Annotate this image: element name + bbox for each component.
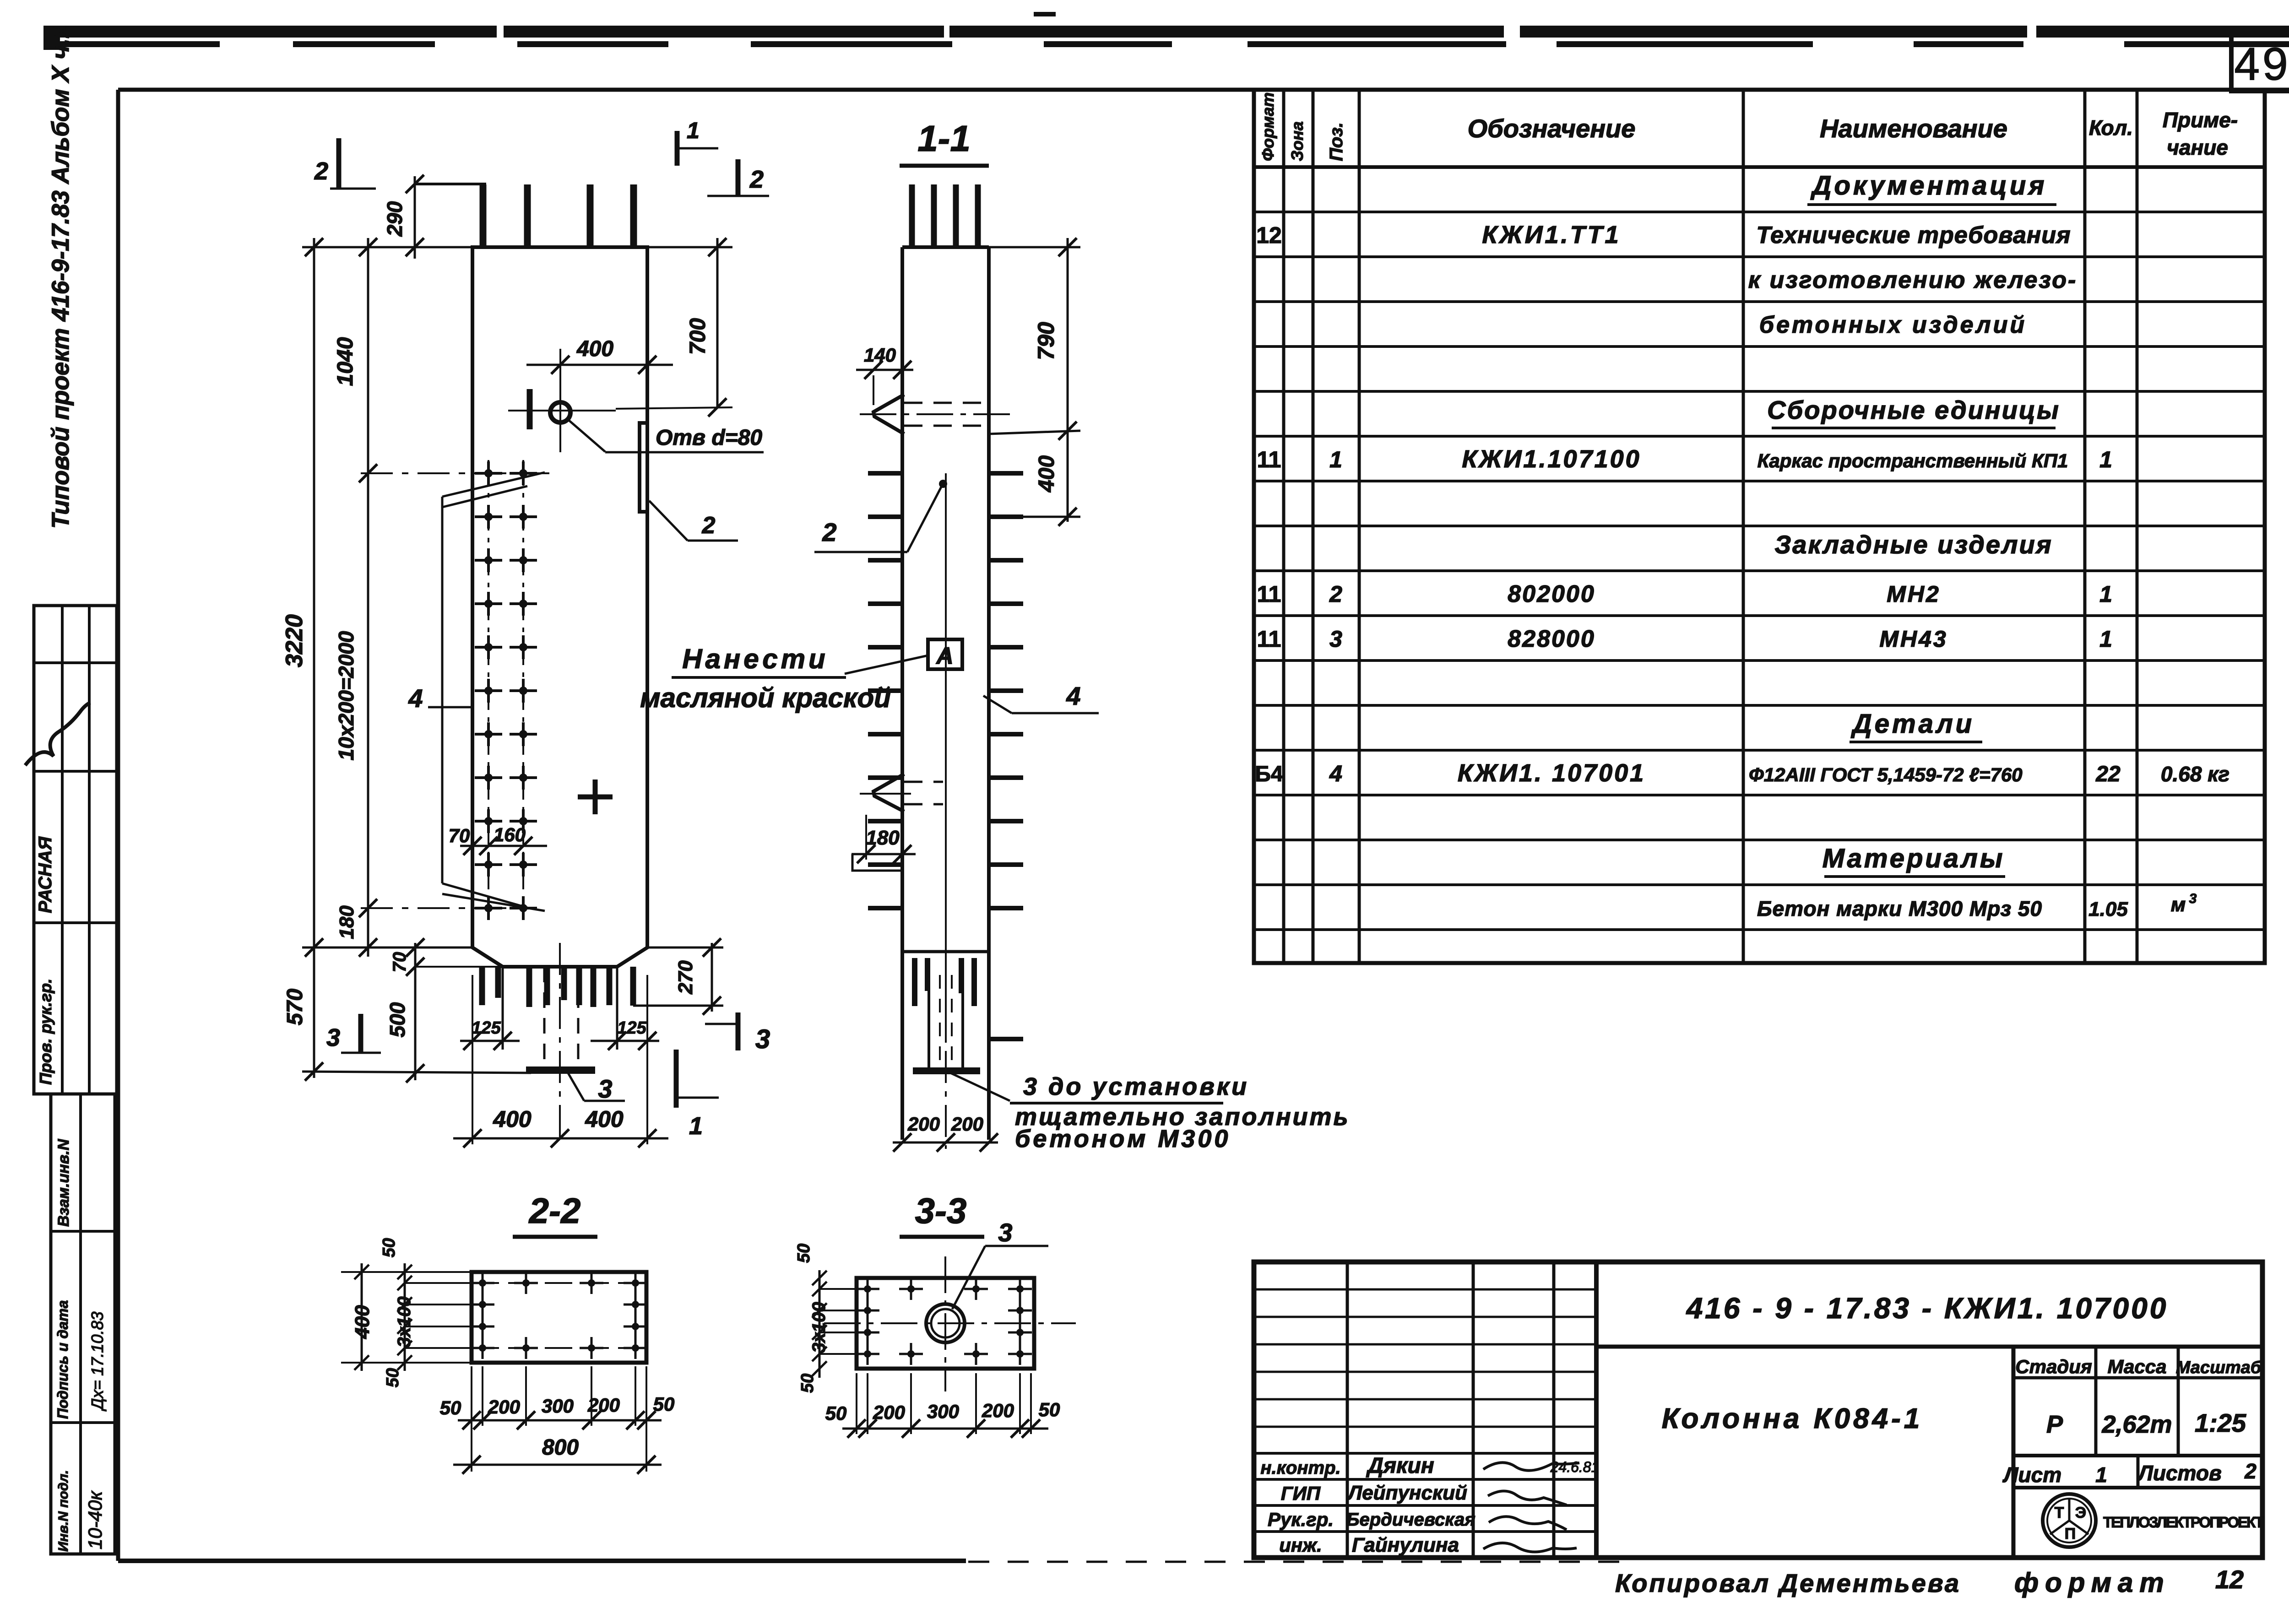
section 2-2 bottom dims	[458, 1419, 662, 1422]
section 1-1 link line right	[945, 473, 947, 1039]
stirrup centerline left	[488, 460, 489, 915]
section 3-3 rebar plus marks	[856, 1288, 879, 1290]
svg-text:11: 11	[1257, 581, 1281, 607]
section 1-1 transverse bar ticks	[868, 471, 904, 476]
level line bottom dash-dot	[361, 907, 531, 909]
svg-text:11: 11	[1257, 626, 1281, 652]
svg-text:160: 160	[494, 824, 526, 845]
front view foot right edge dowel	[630, 967, 636, 1006]
dimension 290	[414, 176, 416, 259]
svg-text:Э: Э	[2075, 1504, 2086, 1521]
svg-text:140: 140	[864, 344, 896, 366]
front view foot narrow shaft	[502, 967, 504, 1050]
section marker 1 top-mid	[675, 131, 680, 166]
svg-text:50: 50	[1039, 1399, 1060, 1420]
svg-text:Колонна К084-1: Колонна К084-1	[1662, 1403, 1923, 1435]
svg-text:3: 3	[1329, 626, 1342, 652]
svg-text:Сборочные единицы: Сборочные единицы	[1767, 395, 2060, 424]
svg-text:А: А	[935, 643, 954, 669]
section 2-2 outline	[472, 1272, 646, 1363]
front view grout channel dashed	[543, 967, 546, 1066]
dimension 125 right	[591, 1040, 659, 1042]
spec table row lines	[1254, 211, 2265, 213]
svg-text:Поз.: Поз.	[1326, 122, 1346, 161]
svg-text:2-2: 2-2	[528, 1191, 581, 1231]
svg-text:ТЕПЛОЗЛЕКТРОПРОЕКТ: ТЕПЛОЗЛЕКТРОПРОЕКТ	[2103, 1514, 2264, 1531]
svg-text:КЖИ1.107100: КЖИ1.107100	[1462, 445, 1641, 473]
svg-text:125: 125	[472, 1018, 501, 1038]
section 1-1 foot centerline	[945, 943, 947, 1149]
svg-text:50: 50	[440, 1397, 461, 1418]
svg-text:50: 50	[653, 1393, 675, 1415]
svg-text:70: 70	[449, 825, 470, 846]
left stamp table upper	[34, 606, 117, 1094]
svg-text:инж.: инж.	[1279, 1534, 1322, 1556]
svg-text:Гайнулина: Гайнулина	[1352, 1534, 1459, 1556]
svg-text:3: 3	[755, 1024, 770, 1054]
svg-text:Лист: Лист	[2002, 1463, 2061, 1487]
section 2-2 left dim line 3x100	[404, 1263, 406, 1371]
svg-text:180: 180	[336, 905, 358, 939]
svg-text:1: 1	[1329, 447, 1342, 472]
svg-text:802000: 802000	[1508, 581, 1595, 607]
svg-text:1.05: 1.05	[2088, 898, 2128, 920]
hole centerline vertical	[559, 349, 561, 452]
svg-text:12: 12	[1256, 222, 1282, 248]
svg-text:формат: формат	[2014, 1567, 2170, 1598]
svg-text:Взам.инв.N: Взам.инв.N	[55, 1138, 72, 1227]
spec table column lines	[1282, 90, 1286, 963]
svg-text:3220: 3220	[281, 614, 308, 667]
svg-text:Материалы: Материалы	[1823, 844, 2005, 873]
section 1-1 column outline	[900, 247, 904, 1140]
section 1-1 foot top line	[902, 950, 989, 953]
svg-text:Масштаб: Масштаб	[2176, 1358, 2262, 1377]
section 2-2 bar rows extension lines	[405, 1282, 483, 1284]
svg-text:Бердичевская: Бердичевская	[1346, 1510, 1475, 1530]
section marker 1 bottom-right	[674, 1050, 679, 1108]
svg-text:масляной краской: масляной краской	[640, 682, 891, 713]
section marker 3 left-bottom	[358, 1014, 363, 1054]
dimension 140	[856, 369, 913, 371]
svg-text:22: 22	[2095, 762, 2121, 786]
left stamp table lower	[51, 1094, 115, 1554]
svg-text:4: 4	[1329, 761, 1342, 786]
svg-text:Копировал Дементьева: Копировал Дементьева	[1615, 1569, 1961, 1597]
drawing frame border	[118, 88, 2289, 92]
section 1-1 lower lifting loop	[873, 774, 904, 812]
embedded plate 2 on right edge	[640, 423, 647, 512]
svg-text:3: 3	[998, 1218, 1012, 1247]
marked zone A box	[928, 639, 962, 669]
svg-text:4: 4	[408, 684, 423, 713]
svg-text:400: 400	[1035, 455, 1059, 493]
svg-text:11: 11	[1257, 447, 1281, 472]
svg-text:Детали: Детали	[1850, 709, 1974, 739]
dimension 700	[716, 238, 719, 407]
front view foot dowel bars	[479, 968, 485, 1005]
section 1-1 base plate	[913, 1067, 980, 1074]
front view column outline	[472, 247, 647, 967]
section 1-1 foot dowels	[912, 958, 917, 1006]
svg-text:500: 500	[385, 1002, 409, 1037]
leader to A box	[845, 655, 928, 674]
svg-text:300: 300	[542, 1395, 574, 1417]
svg-text:200: 200	[488, 1396, 520, 1418]
loop centerline lower	[860, 793, 911, 795]
svg-text:50: 50	[794, 1244, 814, 1263]
leader label 2	[649, 501, 688, 541]
svg-text:н.контр.: н.контр.	[1260, 1458, 1340, 1478]
svg-text:Инв.N подл.: Инв.N подл.	[56, 1470, 71, 1552]
svg-text:24.6.81: 24.6.81	[1550, 1459, 1600, 1475]
title block signature rows	[1254, 1452, 1596, 1455]
svg-text:Кол.: Кол.	[2089, 116, 2133, 140]
title block outer border	[1254, 1262, 2262, 1558]
svg-text:ГИП: ГИП	[1281, 1483, 1321, 1504]
dimension 400 400 bottom	[453, 1137, 668, 1140]
hole crosshair thick tick	[527, 389, 533, 429]
svg-text:2: 2	[2244, 1459, 2256, 1483]
svg-text:Лейпунский: Лейпунский	[1347, 1482, 1467, 1504]
svg-text:Ф12АIII ГОСТ 5,1459-72 ℓ=760: Ф12АIII ГОСТ 5,1459-72 ℓ=760	[1749, 764, 2023, 785]
svg-text:Дх= 17.10.83: Дх= 17.10.83	[88, 1311, 107, 1412]
svg-text:200: 200	[951, 1113, 983, 1135]
svg-text:70: 70	[390, 952, 410, 973]
svg-text:Листов: Листов	[2137, 1461, 2221, 1485]
signature squiggles	[1483, 1462, 1579, 1470]
front view top rebar outcrops	[480, 184, 487, 247]
svg-text:3x100: 3x100	[809, 1302, 829, 1353]
svg-text:Б4: Б4	[1255, 762, 1283, 786]
leader Otv d=80	[568, 419, 605, 452]
front view base plate	[526, 1066, 595, 1074]
svg-text:Нанести: Нанести	[682, 644, 828, 674]
svg-text:м: м	[2171, 893, 2186, 916]
leader label 3 front	[567, 1072, 584, 1101]
svg-text:к изготовлению железо-: к изготовлению железо-	[1748, 267, 2077, 293]
leader label 4 (1-1)	[1012, 712, 1099, 715]
section 2-2 left dim 400	[361, 1263, 363, 1371]
svg-text:4: 4	[1066, 682, 1080, 710]
section marker 3 right-bottom	[736, 1012, 741, 1050]
svg-text:700: 700	[686, 318, 710, 355]
loop centerline upper	[860, 413, 1014, 415]
svg-text:П: П	[2065, 1525, 2076, 1543]
svg-text:Подпись и дата: Подпись и дата	[54, 1300, 71, 1419]
svg-text:КЖИ1. 107001: КЖИ1. 107001	[1458, 759, 1645, 787]
dimension 270 right	[711, 943, 713, 1012]
svg-text:800: 800	[542, 1435, 579, 1460]
svg-text:Технические требования: Технические требования	[1756, 222, 2071, 249]
svg-text:400: 400	[351, 1305, 374, 1339]
svg-text:200: 200	[982, 1400, 1014, 1421]
stirrup cross marks	[475, 472, 502, 475]
svg-text:Формат: Формат	[1258, 92, 1277, 161]
section 1-1 top rebars	[909, 184, 915, 247]
svg-text:290: 290	[383, 201, 407, 237]
hole centerline horizontal	[508, 410, 616, 411]
svg-text:Зона: Зона	[1288, 121, 1307, 161]
svg-text:570: 570	[283, 989, 307, 1025]
svg-text:416 - 9 - 17.83 - КЖИ1. 10700: 416 - 9 - 17.83 - КЖИ1. 107000	[1686, 1292, 2169, 1325]
svg-text:50: 50	[798, 1374, 817, 1393]
svg-text:200: 200	[907, 1113, 940, 1135]
svg-text:2,62т: 2,62т	[2101, 1411, 2172, 1438]
TEP logo	[2043, 1494, 2096, 1547]
svg-text:180: 180	[866, 827, 900, 849]
svg-text:3: 3	[598, 1074, 612, 1103]
bottom extension y2070	[302, 947, 474, 949]
section 3-3 left dims	[819, 1270, 821, 1378]
reinforcement cage outline 4	[442, 472, 545, 911]
svg-text:1: 1	[689, 1112, 703, 1140]
svg-text:МН2: МН2	[1887, 581, 1941, 607]
svg-text:Обозначение: Обозначение	[1468, 114, 1636, 143]
title block left sub-table thin rows	[1254, 1288, 1596, 1291]
svg-text:Бетон марки М300 Мрз 50: Бетон марки М300 Мрз 50	[1757, 897, 2042, 920]
dimension 200 200 (1-1 bottom)	[893, 1142, 998, 1144]
sheet number box 49	[2231, 35, 2289, 91]
svg-text:1: 1	[687, 118, 700, 143]
section 3-3 crosshair	[824, 1322, 1076, 1324]
svg-text:200: 200	[873, 1402, 905, 1423]
dimension 400 hole	[526, 364, 673, 366]
top dimension extension line	[302, 246, 472, 249]
svg-text:10-40к: 10-40к	[84, 1490, 106, 1549]
svg-text:Масса: Масса	[2108, 1356, 2167, 1377]
svg-text:10x200=2000: 10x200=2000	[334, 631, 358, 760]
svg-text:2: 2	[702, 512, 716, 539]
svg-text:Т: Т	[2055, 1504, 2064, 1521]
svg-text:Стадия: Стадия	[2015, 1356, 2092, 1377]
svg-text:300: 300	[927, 1401, 959, 1422]
section marker 2 top-left	[336, 138, 342, 189]
svg-text:0.68 кг: 0.68 кг	[2161, 762, 2229, 786]
stirrup centerline right	[522, 460, 524, 915]
svg-text:1: 1	[2099, 447, 2112, 472]
svg-text:1: 1	[2099, 626, 2112, 652]
svg-text:Каркас пространственный КП1: Каркас пространственный КП1	[1757, 450, 2068, 471]
section 2-2 dim 800	[453, 1464, 662, 1466]
svg-text:400: 400	[585, 1106, 624, 1132]
spec table outer	[1254, 90, 2265, 963]
svg-text:Закладные изделия: Закладные изделия	[1774, 530, 2052, 559]
leader label 2 (1-1)	[814, 551, 907, 553]
svg-text:50: 50	[383, 1368, 402, 1387]
svg-text:1: 1	[2095, 1463, 2107, 1487]
dimension 125 left	[460, 1040, 520, 1042]
svg-text:1:25: 1:25	[2195, 1408, 2246, 1437]
svg-text:2: 2	[749, 166, 764, 193]
svg-text:50: 50	[825, 1402, 847, 1424]
svg-text:бетонных изделий: бетонных изделий	[1759, 312, 2027, 338]
front view top step line	[415, 183, 486, 185]
svg-text:125: 125	[617, 1018, 646, 1038]
svg-text:2: 2	[314, 157, 328, 185]
dimension 70/500	[414, 943, 417, 1080]
svg-text:790: 790	[1033, 322, 1059, 360]
leader label 4 (front)	[428, 706, 472, 709]
svg-text:Р: Р	[2046, 1411, 2063, 1438]
svg-text:49: 49	[2234, 38, 2289, 90]
svg-text:2: 2	[1329, 581, 1342, 607]
svg-text:1040: 1040	[333, 337, 358, 386]
dimension chain 3220 line	[313, 238, 315, 1078]
dimension 790	[1067, 238, 1069, 437]
leader label 3 (3-3)	[952, 1246, 985, 1309]
level line 1040 dash-dot	[361, 472, 549, 474]
svg-text:Наименование: Наименование	[1820, 114, 2007, 143]
svg-text:бетоном М300: бетоном М300	[1015, 1125, 1231, 1153]
svg-text:чание: чание	[2167, 135, 2228, 159]
hole Otv d80 circle	[550, 402, 570, 422]
svg-text:400: 400	[493, 1106, 532, 1132]
svg-text:КЖИ1.ТТ1: КЖИ1.ТТ1	[1482, 221, 1621, 249]
title block left sub-table verticals	[1346, 1262, 1349, 1558]
svg-text:3 до установки: 3 до установки	[1023, 1073, 1249, 1100]
dimension 180 (1-1)	[852, 853, 916, 855]
svg-text:12: 12	[2215, 1565, 2244, 1594]
svg-text:Приме-: Приме-	[2163, 108, 2238, 132]
svg-text:3: 3	[326, 1024, 340, 1051]
svg-text:828000: 828000	[1508, 626, 1595, 652]
svg-text:РАСНАЯ: РАСНАЯ	[35, 836, 55, 913]
svg-text:Дякин: Дякин	[1366, 1454, 1434, 1478]
section marker 2 top-right	[736, 159, 741, 196]
svg-text:270: 270	[674, 960, 697, 995]
svg-text:1-1: 1-1	[917, 118, 971, 159]
svg-text:Отв d=80: Отв d=80	[656, 426, 762, 450]
svg-text:3-3: 3-3	[915, 1191, 967, 1231]
svg-text:2: 2	[822, 518, 836, 547]
leader label 3 (1-1)	[950, 1073, 1010, 1101]
stamp signature squiggle	[25, 703, 90, 765]
svg-text:400: 400	[576, 337, 613, 361]
svg-text:Рук.гр.: Рук.гр.	[1268, 1509, 1334, 1530]
svg-text:50: 50	[380, 1238, 399, 1257]
front view foot centerline	[559, 943, 561, 1144]
dimension chain 1040/2000/180 line	[367, 238, 369, 957]
title block main dividers	[1596, 1345, 2262, 1349]
dimension 400 (1-1)	[1067, 431, 1069, 522]
svg-text:1: 1	[2099, 581, 2112, 607]
section 2-2 rebar plus marks	[471, 1282, 494, 1284]
svg-text:3x100: 3x100	[394, 1296, 414, 1347]
svg-text:МН43: МН43	[1879, 626, 1947, 652]
scan artifact top bar	[43, 12, 2289, 50]
svg-text:Типовой проект 416-9-17.83 Аль: Типовой проект 416-9-17.83 Альбом X ч.1	[47, 25, 74, 529]
spec table header bottom line	[1254, 165, 2265, 169]
section 3-3 hole circle	[926, 1304, 965, 1343]
extension y2341	[302, 1072, 531, 1073]
section 3-3 outline	[857, 1278, 1034, 1369]
section 1-1 upper lifting loop	[873, 395, 904, 434]
svg-text:Пров. рук.гр.: Пров. рук.гр.	[36, 979, 55, 1085]
svg-text:3: 3	[2189, 891, 2197, 906]
center plus mark	[578, 795, 613, 800]
svg-text:Документация: Документация	[1810, 171, 2047, 200]
dimension 70/160 stirrups	[460, 845, 547, 847]
section 1-1 grout channel	[928, 966, 930, 1067]
section 3-3 bottom dims	[842, 1428, 1048, 1430]
